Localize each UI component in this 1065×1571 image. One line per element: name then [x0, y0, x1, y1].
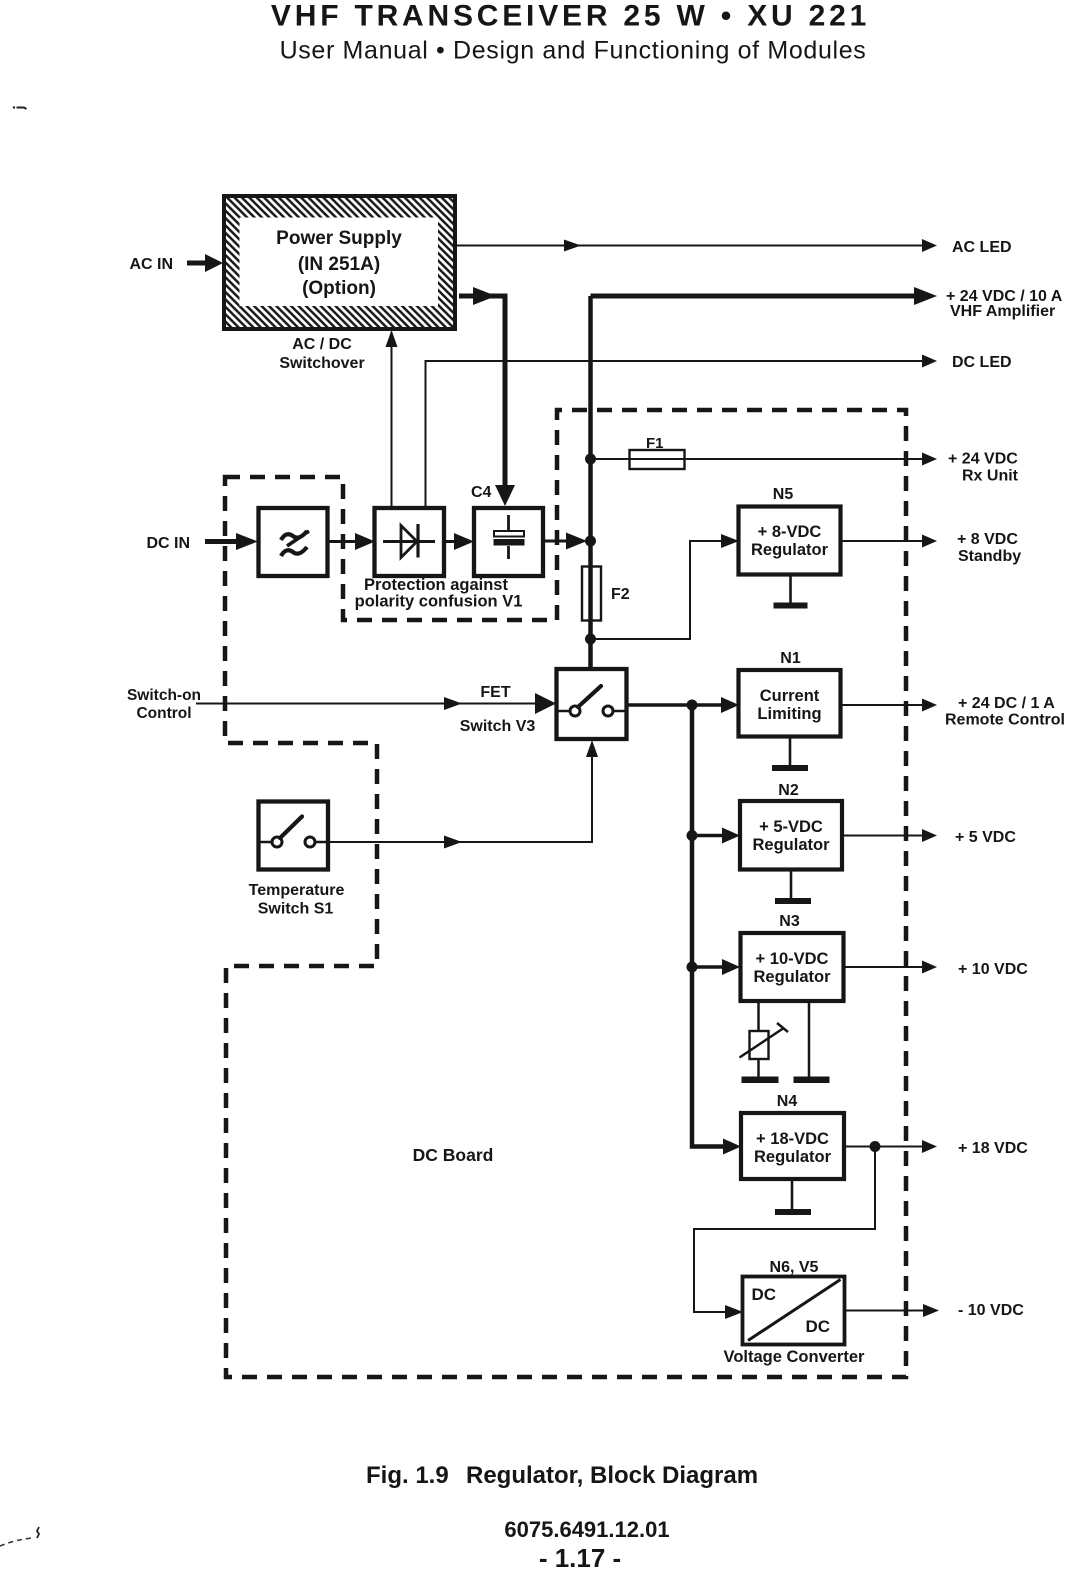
svg-text:VHF Amplifier: VHF Amplifier	[950, 303, 1055, 320]
svg-text:Fig. 1.9: Fig. 1.9	[366, 1462, 449, 1489]
regulator N2 box	[740, 801, 842, 870]
DC board dashed outline	[225, 410, 906, 1377]
wire C4 to bus junction	[543, 540, 567, 543]
svg-text:Standby: Standby	[958, 548, 1021, 565]
svg-text:Switchover: Switchover	[279, 355, 364, 372]
fuse F1	[630, 450, 685, 469]
svg-text:AC IN: AC IN	[129, 256, 173, 273]
svg-text:- 10 VDC: - 10 VDC	[958, 1302, 1024, 1319]
wire thick power supply output down into C4	[459, 296, 505, 485]
node junction F1	[585, 454, 596, 465]
converter N6,V5 box	[743, 1277, 845, 1345]
svg-text:N3: N3	[779, 913, 800, 930]
svg-text:AC LED: AC LED	[952, 239, 1012, 256]
node junction main	[585, 536, 596, 547]
svg-text:N6, V5: N6, V5	[770, 1259, 819, 1276]
wire bus FET to regulators	[692, 705, 723, 1147]
fuse F2	[582, 567, 601, 621]
wire AC LED output	[455, 245, 922, 247]
wire FET output to N1	[627, 703, 721, 707]
svg-text:N1: N1	[780, 650, 801, 667]
wire switch-on control to FET switch	[196, 703, 538, 705]
svg-text:Temperature: Temperature	[249, 882, 345, 899]
wire junction to N5 input	[591, 541, 722, 639]
svg-text:Limiting: Limiting	[757, 705, 821, 723]
scan artifact bottom-left	[0, 1538, 32, 1546]
ground right under N3	[794, 1077, 830, 1084]
svg-text:C4: C4	[471, 484, 492, 501]
svg-text:+ 24 VDC: + 24 VDC	[948, 451, 1018, 468]
svg-text:Remote Control: Remote Control	[945, 712, 1065, 729]
svg-text:+ 10-VDC: + 10-VDC	[756, 950, 829, 968]
svg-text:(Option): (Option)	[302, 278, 376, 299]
svg-text:- 1.17 -: - 1.17 -	[539, 1543, 621, 1571]
regulator N5 box	[739, 507, 841, 575]
svg-text:(IN 251A): (IN 251A)	[298, 254, 380, 275]
wire thick +24VDC/10A from bus to VHF amplifier	[591, 294, 915, 299]
wire -10VDC output	[845, 1310, 924, 1312]
svg-text:Regulator: Regulator	[753, 968, 831, 986]
svg-text:Regulator: Regulator	[751, 541, 829, 559]
svg-text:VHF TRANSCEIVER 25 W • XU 221: VHF TRANSCEIVER 25 W • XU 221	[271, 0, 870, 33]
svg-text:6075.6491.12.01: 6075.6491.12.01	[504, 1517, 669, 1542]
svg-text:+ 18 VDC: + 18 VDC	[958, 1140, 1028, 1157]
wire N3 ground via trimmer	[757, 1001, 760, 1077]
svg-text:Regulator: Regulator	[754, 1148, 832, 1166]
power supply module IN 251A (hatched box)	[224, 196, 455, 329]
diode V1 symbol	[383, 540, 435, 543]
svg-text:Rx Unit: Rx Unit	[962, 468, 1019, 485]
svg-text:N5: N5	[773, 486, 794, 503]
ground left under N3	[742, 1077, 779, 1084]
svg-text:DC: DC	[805, 1317, 830, 1336]
wire +5VDC output	[842, 835, 922, 837]
node junction below F2	[585, 634, 596, 645]
svg-text:Control: Control	[136, 705, 191, 722]
ground under N2	[790, 870, 793, 899]
svg-text:+ 18-VDC: + 18-VDC	[756, 1130, 829, 1148]
regulator N3 box	[741, 933, 844, 1001]
wire main DC bus vertical	[588, 296, 593, 671]
filter FL1 box	[259, 508, 328, 576]
svg-text:Switch-on: Switch-on	[127, 687, 201, 704]
svg-text:AC / DC: AC / DC	[292, 336, 352, 353]
ground under N5	[789, 574, 792, 603]
svg-text:Switch S1: Switch S1	[258, 901, 334, 918]
node junction FET/N1	[687, 700, 698, 711]
svg-text:Current: Current	[760, 687, 820, 705]
svg-text:+ 5-VDC: + 5-VDC	[759, 818, 823, 836]
wire AC/DC switchover from diode box top into power supply	[391, 332, 393, 507]
svg-text:+ 5 VDC: + 5 VDC	[955, 829, 1016, 846]
node junction +18VDC	[870, 1141, 881, 1152]
svg-text:DC: DC	[752, 1285, 777, 1304]
svg-text:+ 8-VDC: + 8-VDC	[758, 523, 822, 541]
svg-text:F2: F2	[611, 586, 630, 603]
wire DC IN arrow into filter	[205, 539, 237, 544]
svg-text:FET: FET	[480, 684, 510, 701]
ground under N4	[791, 1179, 794, 1210]
switch S1 (temperature) box	[259, 802, 329, 870]
capacitor C4 symbol	[507, 515, 510, 559]
wire +18VDC output	[844, 1146, 922, 1148]
svg-text:DC LED: DC LED	[952, 354, 1012, 371]
svg-text:+ 10 VDC: + 10 VDC	[958, 961, 1028, 978]
svg-text:F1: F1	[646, 435, 664, 452]
transistor FET switch V3 box	[557, 669, 627, 739]
wire +24VDC Rx Unit	[591, 458, 923, 460]
svg-text:DC IN: DC IN	[146, 535, 190, 552]
svg-text:N4: N4	[777, 1093, 798, 1110]
trimmer resistor	[750, 1031, 769, 1059]
regulator N4 box	[741, 1113, 844, 1179]
svg-text:Switch V3: Switch V3	[460, 718, 536, 735]
svg-text:User Manual • Design and Funct: User Manual • Design and Functioning of …	[280, 37, 867, 65]
wire +24DC/1A output	[840, 704, 922, 706]
wire diode to C4	[444, 540, 455, 543]
svg-text:polarity confusion V1: polarity confusion V1	[355, 593, 523, 611]
wire N3 input	[692, 965, 722, 969]
svg-text:+ 24 DC / 1 A: + 24 DC / 1 A	[958, 695, 1055, 712]
node junction N2 input	[687, 830, 698, 841]
scan artifact top-left	[13, 106, 15, 108]
wire N2 input	[692, 834, 722, 838]
node junction N3 input	[687, 962, 698, 973]
wire N3 ground right	[808, 1001, 811, 1077]
svg-text:Protection against: Protection against	[364, 576, 508, 594]
capacitor C4 box	[474, 508, 543, 576]
wire filter to diode	[327, 540, 355, 543]
regulator N1 box	[739, 670, 841, 737]
svg-text:DC Board: DC Board	[413, 1145, 494, 1165]
wire AC IN arrow into power supply	[187, 261, 205, 266]
svg-text:+ 8 VDC: + 8 VDC	[957, 531, 1018, 548]
svg-text:Power Supply: Power Supply	[276, 228, 402, 249]
diode V1 box	[375, 508, 445, 576]
wire +8VDC output	[840, 540, 922, 542]
svg-text:Voltage Converter: Voltage Converter	[724, 1348, 865, 1366]
svg-text:Regulator, Block Diagram: Regulator, Block Diagram	[466, 1462, 758, 1489]
ground under N1	[789, 736, 792, 766]
wire +18VDC feed to voltage converter	[694, 1147, 875, 1313]
svg-text:Regulator: Regulator	[752, 836, 830, 854]
wire +10VDC output	[844, 966, 923, 968]
wire S1 to FET switch	[328, 745, 592, 842]
filter symbol	[281, 531, 307, 540]
svg-text:N2: N2	[778, 782, 799, 799]
wire DC LED from diode box top	[426, 361, 923, 507]
